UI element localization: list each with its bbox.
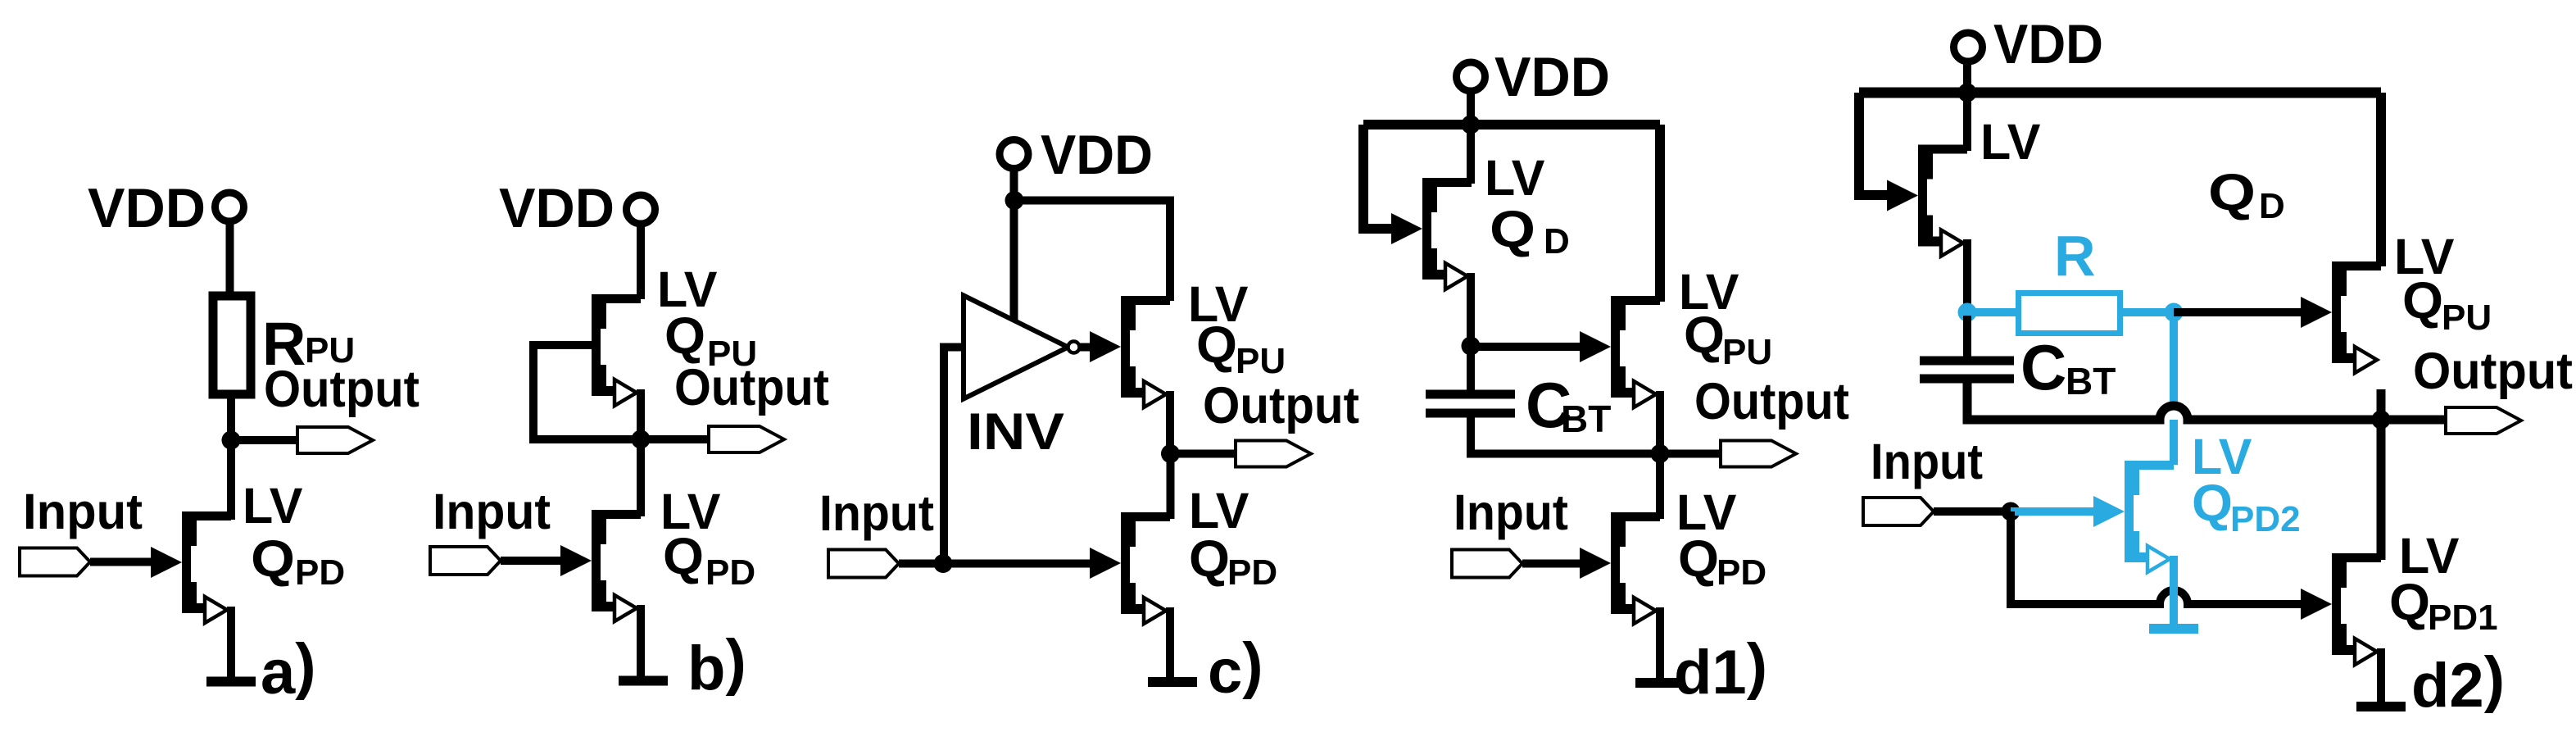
wire capacitor to output line (d1) [1471,413,1729,454]
svg-text:D: D [2259,186,2285,226]
label QPD (b) [663,528,755,593]
gate arrow QPU (c) [1090,331,1121,362]
wire QPD source to ground (d1) [1656,607,1664,678]
label QPD1 (d2) [2389,574,2498,638]
svg-text:Q: Q [2389,574,2430,631]
gate arrow QPU (d2) [2301,297,2332,328]
transistor QPD (c) [1121,512,1170,624]
resistor R (d2) [2019,293,2120,334]
wire gate loop QPU (b) [533,345,635,439]
wire node to QPD drain (b) [637,439,645,516]
node output (d2) [2372,411,2391,430]
svg-text:Q: Q [664,307,705,365]
inverter INV [964,296,1068,399]
svg-text:Output: Output [1203,377,1359,434]
svg-text:PD: PD [705,552,755,593]
transistor QPD (b) [592,510,641,621]
wire source to ground (a) [227,607,235,681]
svg-text:Q: Q [2192,475,2233,532]
input pin (b) [430,547,501,575]
wire resistor to node (d2) [2117,308,2174,316]
wire QPU source to node (d2) [2377,389,2386,420]
ground QPD1 (d2) [2356,706,2406,707]
svg-text:PD: PD [1227,552,1277,593]
svg-text:VDD: VDD [499,177,615,239]
ground (d1) [1635,682,1685,684]
transistor QPU (b) [592,294,641,406]
label QD (d2) [2208,164,2285,226]
svg-text:R: R [2054,224,2096,288]
wire junction to QPD2 gate (d2) [2011,507,2105,516]
output pin (a) [297,427,373,453]
output pin (b) [709,426,784,452]
capacitor CBT (d2) [1920,361,2014,379]
transistor QD (d1) [1422,178,1472,289]
svg-text:d2): d2) [2411,644,2505,721]
inverter bubble [1068,342,1080,353]
rail top (d1) [1363,120,1660,130]
VDD terminal (b) [627,195,655,224]
hop arch fill (d2 upper) [2158,404,2189,420]
input pin (c) [828,550,899,578]
node VDD (c) [1005,191,1024,210]
label CBT (d2) [2020,331,2116,403]
svg-text:a): a) [261,631,316,707]
node input junction (d2) [2002,502,2020,521]
svg-text:Q: Q [1684,307,1725,364]
wire input to gate (b) [501,557,562,565]
svg-text:Q: Q [1490,201,1535,258]
wire node to QPU gate (d2) [2174,308,2302,316]
gate arrow QD (d2) [1887,180,1918,211]
node output (c) [1161,444,1180,463]
svg-text:LV: LV [243,478,303,534]
transistor QPD2 (d2) [2125,461,2174,572]
wire input to gate (d1) [1522,560,1581,568]
wire node to QPD drain (d1) [1656,454,1664,520]
svg-text:b): b) [687,627,746,703]
wire input to junction (d2) [1934,507,2011,516]
input pin (a) [20,548,90,576]
output pin (d1) [1721,441,1796,467]
node input junction (c) [934,554,953,573]
VDD terminal (d1) [1457,62,1485,91]
svg-text:PD2: PD2 [2230,499,2301,539]
label QPD (d1) [1678,530,1766,593]
transistor QPD (d1) [1611,512,1660,624]
wire QPD source to ground (b) [637,605,645,677]
ground (b) [619,680,668,682]
node output (d1) [1651,444,1670,463]
svg-text:d1): d1) [1674,631,1767,707]
svg-text:LV: LV [1980,114,2041,170]
gate arrow QPD (d1) [1580,548,1611,579]
wire R node down to QPD2 drain (d2) [2170,312,2178,465]
wire QD source to node (d2) [1963,239,1971,312]
wire QD drain (d2) [1963,93,1971,151]
svg-text:VDD: VDD [1993,13,2103,75]
wire node to QPD drain (c) [1167,454,1175,520]
svg-text:VDD: VDD [1494,46,1610,108]
label QPD2 (d2) [2192,475,2301,539]
node gate QPU (d1) [1462,337,1481,356]
wire QPU source to node (c) [1166,391,1174,454]
wire left drop to QD gate (d1) [1363,125,1395,229]
gate arrow QPD (a) [151,547,182,578]
wire VDD to rail (d2) [1963,61,1971,93]
wire rail right drop to QPU drain (d2) [2376,93,2386,266]
input pin (d2) [1863,498,1934,525]
gate arrow QPD (c) [1090,548,1121,579]
wire node to output pin (a) [231,436,303,444]
wire QPD2 source to ground (d2) [2170,556,2178,624]
svg-text:Input: Input [1454,484,1568,540]
transistor QPD (a) [182,511,231,623]
svg-text:LV: LV [1485,150,1545,206]
label RPU [262,310,355,378]
svg-text:Input: Input [1871,434,1983,489]
ground (c) [1148,681,1197,683]
svg-text:INV: INV [967,403,1064,461]
resistor RPU [213,296,251,394]
svg-text:VDD: VDD [1041,124,1153,186]
svg-text:D: D [1544,221,1570,261]
svg-text:Output: Output [2413,343,2573,400]
input pin (d1) [1452,550,1522,578]
svg-text:C: C [2020,331,2066,403]
svg-text:PU: PU [707,334,757,374]
wire QD source to gate node (d1) [1467,273,1475,346]
wire node to output pin (c) [1171,450,1242,458]
gate arrow QPU (d1) [1580,331,1611,362]
node R right (d2) [2165,303,2184,322]
rail top (d2) [1859,88,2381,98]
wire node to QPD1 drain (d2) [2377,420,2386,560]
label QPU (d1) [1684,307,1772,372]
svg-text:PU: PU [1722,332,1772,372]
label QPU (b) [664,307,757,374]
wire gate node to QPU gate (d1) [1471,343,1581,351]
output pin (d2) [2446,407,2521,434]
wire rail right drop to QPU drain (d1) [1655,125,1665,302]
wire VDD to resistor (a) [226,220,234,294]
transistor QPD1 (d2) [2332,553,2381,665]
label QD (d1) [1490,201,1570,261]
transistor QD (d2) [1918,145,1967,257]
wire gate node to capacitor (d2) [1963,316,1971,358]
gate arrow QPD1 (d2) [2301,589,2332,620]
gate arrow QPD (b) [560,545,592,576]
svg-text:Q: Q [1189,530,1230,588]
label QPU (c) [1196,316,1286,381]
svg-text:Q: Q [251,530,295,588]
wire capacitor to output line with hop (d2) [1967,379,2450,420]
node output (b) [632,430,651,449]
transistor QPU (d2) [2332,261,2381,373]
svg-text:Input: Input [433,484,551,539]
wire VDD to QPU drain (b) [637,223,645,299]
svg-text:c): c) [1208,630,1263,707]
VDD terminal (d2) [1954,33,1983,61]
VDD terminal (c) [1000,140,1028,169]
svg-text:PD: PD [295,552,345,593]
svg-text:Input: Input [819,485,934,541]
label QPD (c) [1189,530,1277,593]
wire QPD1 source to ground (d2) [2377,648,2385,702]
gate arrow QD (d1) [1391,213,1422,244]
wire input to gate (c) [899,560,1091,568]
node output (a) [222,431,241,450]
label CBT (d1) [1526,369,1611,441]
capacitor CBT (d1) [1426,394,1515,413]
transistor QPU (c) [1121,296,1170,407]
svg-text:Q: Q [1678,530,1719,588]
wire node to output pin (b) [641,435,713,443]
wire VDD to rail (d1) [1467,90,1475,125]
svg-text:Q: Q [663,528,704,585]
svg-text:Q: Q [2208,164,2256,221]
svg-text:VDD: VDD [88,177,206,239]
gate arrow QPD2 (d2) [2093,496,2125,527]
wire node to resistor (d2) [1967,308,2019,316]
svg-text:PU: PU [2442,298,2492,338]
wire QPU source to node (b) [637,389,645,439]
svg-text:Output: Output [1694,373,1849,430]
svg-text:Q: Q [2402,272,2443,330]
svg-text:PU: PU [1236,341,1286,381]
wire VDD to QPU drain (c) [1014,201,1170,302]
svg-text:Q: Q [1196,316,1237,374]
node R left (d2) [1958,303,1977,322]
ground QPD2 (d2) [2149,628,2198,630]
wire QPD source to ground (c) [1166,607,1174,678]
svg-text:Input: Input [23,484,143,539]
wire left drop to QD gate (d2) [1859,93,1890,195]
label QPU (d2) [2402,272,2492,338]
transistor QPU (d1) [1611,296,1660,407]
ground (a) [206,681,256,683]
wire VDD down to INV (c) [1010,168,1018,321]
wire input to gate (a) [90,558,154,566]
wire INV input (c) [944,348,964,564]
VDD terminal (a) [215,193,244,221]
wire QD drain (d1) [1467,125,1475,184]
svg-text:Output: Output [264,361,420,418]
wire QPU source to node (d1) [1656,391,1664,454]
wire bubble to gate (c) [1080,343,1091,352]
svg-text:BT: BT [2066,360,2116,402]
svg-text:PD: PD [1717,552,1766,593]
svg-text:PD1: PD1 [2428,598,2498,638]
node VDD (d1) [1462,116,1481,134]
wire resistor to QPD drain (a) [227,394,235,520]
svg-text:BT: BT [1561,398,1611,440]
wire gate node to capacitor (d1) [1467,346,1475,391]
output pin (c) [1236,441,1311,467]
wire junction down to QPD1 gate with hop (d2) [2011,511,2302,604]
label QPD (a) [251,530,345,593]
node VDD (d2) [1958,84,1977,102]
